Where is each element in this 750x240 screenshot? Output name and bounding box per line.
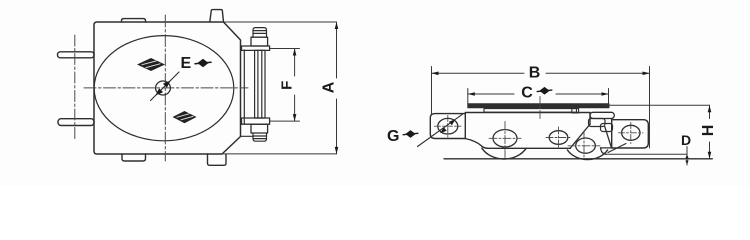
wheel 1 arc (482, 148, 526, 159)
bracket top nut (251, 37, 268, 46)
G leader line through hole (418, 114, 463, 146)
label C diameter symbol (537, 87, 552, 95)
bracket top stud (253, 28, 267, 38)
hub leader arrow upper (163, 81, 171, 88)
left lug (430, 114, 465, 139)
dimension C left extension (467, 89, 469, 105)
under plate right step (572, 109, 579, 113)
dimension B right extension (649, 67, 651, 149)
svg-text:F: F (279, 81, 296, 90)
hatched diamond lower (173, 111, 197, 123)
dimension B arrow left (432, 72, 439, 76)
right lug hole (622, 125, 640, 140)
dimension C arrow right (602, 92, 609, 96)
under plate (484, 109, 577, 113)
bracket bottom flange (242, 118, 270, 124)
G leader arrows (449, 119, 456, 125)
rod lower left (58, 119, 94, 126)
bracket bottom stud (253, 133, 267, 141)
hub circle (156, 81, 171, 95)
dimension F extension top (270, 48, 300, 50)
svg-text:H: H (700, 125, 717, 137)
dimension F arrow bottom (293, 114, 297, 121)
tab bottom-right (208, 154, 227, 165)
bracket shank (255, 50, 265, 118)
hatched diamond upper (137, 58, 165, 71)
bracket plate line (243, 50, 245, 124)
dimension B left extension (431, 67, 433, 114)
dimension H top extension (604, 104, 710, 106)
lug bottom extension (601, 147, 613, 149)
rods centerline (74, 35, 76, 141)
dimension C line (468, 93, 609, 95)
bracket top flange (242, 46, 270, 50)
svg-text:B: B (529, 65, 541, 82)
clamp block right (601, 124, 613, 132)
left lug hole (438, 118, 458, 134)
vertical centerline (164, 15, 166, 161)
wheel 2 centerlines (568, 131, 600, 158)
tab bottom-left (122, 154, 146, 161)
wheel 1 axle circle (493, 130, 517, 147)
body outline (94, 22, 241, 154)
dimension H arrow bottom (708, 152, 712, 159)
wheel 1 centerlines (489, 122, 521, 158)
ground baseline (444, 158, 712, 160)
dimension A extension top (224, 21, 337, 23)
dimension D arrow bottom (685, 160, 688, 164)
arm lower diagonal (608, 144, 626, 153)
arm left diagonal (571, 125, 590, 148)
dimension A line (336, 22, 338, 154)
clamp capsule over plate end (590, 112, 614, 118)
dimension D line (686, 147, 688, 166)
dimension D arrow top (685, 154, 688, 158)
hub diameter leader line (151, 72, 180, 101)
middle pivot centerlines (546, 127, 571, 149)
dimension B line (432, 72, 650, 74)
dimension H line (709, 105, 711, 159)
rod upper left (58, 52, 95, 58)
middle pivot circle (549, 131, 568, 145)
svg-text:A: A (321, 81, 338, 93)
dimension H arrow top (708, 105, 712, 112)
label E diameter symbol (195, 59, 211, 67)
clamp block left (589, 119, 606, 127)
dimension A arrow top (335, 22, 339, 29)
dimension C right extension (608, 89, 610, 105)
dimension F line (294, 49, 296, 122)
body block (465, 113, 590, 139)
dimension F arrow top (293, 49, 297, 56)
svg-text:C: C (521, 85, 533, 102)
arm diagonal (605, 127, 612, 148)
right lug (612, 120, 649, 148)
right lug hole cross ticks (619, 123, 644, 144)
svg-text:D: D (681, 132, 691, 148)
main wheel ellipse (94, 36, 234, 141)
dimension F extension bottom (270, 120, 300, 122)
dimension C arrow left (468, 92, 475, 96)
bracket lower shelf line (241, 135, 254, 137)
bracket bottom nut (251, 124, 268, 133)
label G diameter symbol (403, 130, 418, 138)
left lug hole cross ticks (435, 116, 462, 138)
svg-text:E: E (181, 55, 192, 72)
body bottom edge (465, 139, 570, 149)
dimension A arrow bottom (335, 147, 339, 154)
hub leader arrow lower (156, 88, 164, 95)
tab top-left (122, 19, 146, 22)
tab top-right (tall) (210, 10, 224, 22)
swivel top plate (468, 104, 609, 108)
dimension D upper line (605, 153, 687, 155)
wheel 2 axle circle (576, 138, 596, 153)
svg-text:G: G (387, 128, 399, 145)
wheel 2 arc (567, 150, 607, 160)
lug foot curve (601, 148, 607, 154)
horizontal centerline (84, 87, 248, 89)
plate centerline (539, 97, 541, 121)
dimension A extension bottom (222, 153, 337, 155)
dimension B arrow right (643, 72, 650, 76)
